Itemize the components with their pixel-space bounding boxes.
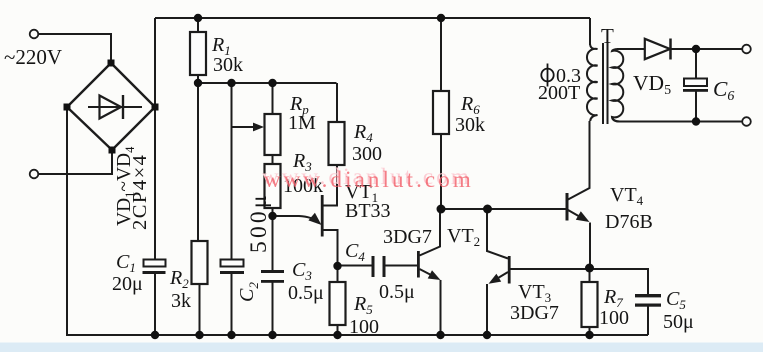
svg-text:2CP4×4: 2CP4×4 xyxy=(129,154,151,230)
svg-text:3DG7: 3DG7 xyxy=(383,226,432,248)
svg-text:100: 100 xyxy=(599,307,629,329)
svg-text:300: 300 xyxy=(352,143,382,165)
svg-text:0.5μ: 0.5μ xyxy=(288,282,324,304)
svg-text:20μ: 20μ xyxy=(112,273,143,295)
svg-text:T: T xyxy=(601,24,614,48)
svg-text:100: 100 xyxy=(349,316,379,338)
svg-text:3k: 3k xyxy=(171,290,191,312)
svg-text:D76B: D76B xyxy=(605,211,653,233)
svg-text:200T: 200T xyxy=(538,82,580,104)
svg-text:500μ: 500μ xyxy=(246,192,272,253)
svg-text:50μ: 50μ xyxy=(663,311,694,333)
svg-text:30k: 30k xyxy=(213,54,243,76)
svg-text:www.dianlut.com: www.dianlut.com xyxy=(264,167,474,192)
svg-text:BT33: BT33 xyxy=(345,200,391,222)
svg-text:1M: 1M xyxy=(288,112,316,134)
svg-text:~220V: ~220V xyxy=(4,45,62,69)
svg-text:0.5μ: 0.5μ xyxy=(379,281,415,303)
svg-text:3DG7: 3DG7 xyxy=(510,302,559,324)
svg-text:30k: 30k xyxy=(455,114,485,136)
